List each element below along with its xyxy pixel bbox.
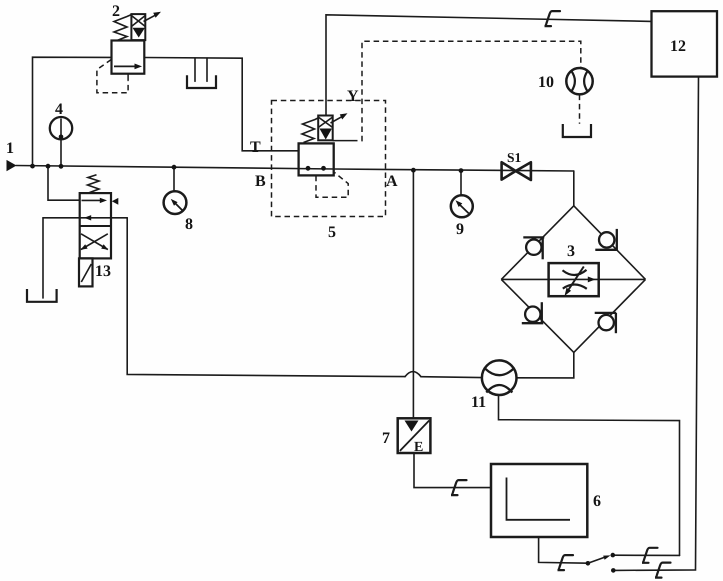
wire tank drop left: [42, 218, 44, 298]
flow control valve 3 center box: [549, 263, 599, 296]
wire bridge edge lower right: [574, 279, 646, 352]
check valve lower left: [522, 302, 544, 324]
gauge 9: [451, 195, 473, 217]
relief valve 2: [112, 12, 162, 81]
wire flow meter 10 to tank dashed: [579, 95, 581, 124]
svg-text:B: B: [255, 173, 266, 190]
wire command line valve 5 pilot to box 12: [326, 15, 652, 116]
check valve upper left: [523, 237, 544, 259]
wire bridge edge upper left: [501, 206, 574, 280]
wire bridge edge upper right: [574, 206, 646, 280]
wire upper contact line: [613, 554, 680, 556]
valve 13 proportional valve: [79, 175, 118, 287]
svg-text:11: 11: [471, 394, 486, 411]
svg-text:1: 1: [6, 140, 14, 157]
wire bridge horizontal: [501, 278, 645, 280]
wire valve 13 outlet down: [127, 218, 405, 377]
wire main pressure line P: [16, 166, 574, 172]
valve S1: [502, 162, 531, 180]
junction gauge-4 branch: [50, 117, 72, 139]
svg-text:5: 5: [328, 224, 336, 241]
junction gauge-9 branch: [459, 168, 464, 173]
wire pilot drain Y dashed: [352, 41, 581, 140]
wire scope 6 to switch: [539, 537, 588, 563]
svg-text:8: 8: [185, 216, 193, 233]
wire node A down to transducer 7: [412, 170, 414, 418]
svg-text:2: 2: [112, 3, 120, 20]
switch blade: [588, 557, 606, 564]
pump 1: [7, 160, 17, 171]
break symbol on command line: [545, 11, 561, 26]
wire valve 5 drain dashed: [316, 173, 348, 198]
junction inside valve 5 (right): [321, 166, 326, 171]
switch pivot contact: [586, 561, 591, 566]
bridge rectifier 3: [501, 206, 645, 353]
junction relief-valve branch: [30, 164, 35, 169]
break symbol 6 to switch: [558, 555, 574, 570]
wire crossing hump: [405, 372, 421, 377]
wire lower contact line to riser from 12: [613, 77, 698, 571]
tank bottom left: [27, 289, 57, 302]
wire gauge 4 stem: [60, 139, 62, 166]
break symbol lower contact: [655, 563, 671, 578]
junction node dots: [30, 164, 463, 173]
svg-text:9: 9: [456, 221, 464, 238]
wire hump to flow meter 11: [421, 376, 482, 379]
wire transducer 7 to scope 6: [414, 453, 491, 488]
valve 5 proportional relief (inside dashed box): [299, 113, 352, 175]
controller box 12: [652, 11, 718, 76]
wire relief valve 2 pilot dashed: [97, 60, 128, 93]
break symbol upper contact: [642, 548, 658, 563]
oscilloscope 6: [491, 464, 587, 537]
check valve upper right: [595, 229, 617, 251]
svg-text:6: 6: [593, 493, 601, 510]
svg-text:Y: Y: [347, 88, 359, 105]
junction gauge-8 branch: [172, 165, 177, 170]
svg-text:7: 7: [382, 430, 390, 447]
wire tank stub a: [194, 58, 196, 81]
wire relief valve 2 outlet to tank and T line: [144, 58, 298, 151]
junction valve-13 branch: [46, 164, 51, 169]
wire valve 13 tank line: [43, 217, 127, 219]
svg-text:3: 3: [567, 243, 575, 260]
switch upper contact: [611, 553, 616, 558]
transducer 7: [398, 418, 431, 453]
flow meter 10: [566, 68, 592, 94]
wire tank stub b: [206, 58, 208, 81]
tank under flow meter 10: [563, 124, 591, 137]
node box 5 dashed enclosure: [272, 101, 386, 217]
switch: [586, 553, 616, 573]
svg-text:S1: S1: [507, 150, 522, 165]
node A junction to transducer 7: [411, 168, 416, 173]
svg-text:12: 12: [670, 38, 686, 55]
wire S1 to bridge top: [573, 171, 575, 206]
wire flow meter 11 to right riser: [499, 395, 680, 556]
tank under valve 2: [187, 75, 216, 88]
wire gauge 9 stub: [460, 171, 462, 196]
svg-text:E: E: [414, 440, 423, 455]
svg-text:13: 13: [95, 263, 111, 280]
flow meter 11: [482, 360, 517, 395]
break symbol 7 to 6: [451, 480, 467, 495]
wire branch to valve 13 inlet: [48, 166, 80, 200]
gauge 4 (thermometer): [50, 117, 72, 139]
svg-text:A: A: [386, 173, 398, 190]
svg-text:T: T: [250, 139, 261, 156]
wire bridge bottom to flow meter 11: [516, 352, 573, 378]
svg-text:10: 10: [538, 74, 554, 91]
switch lower contact: [611, 568, 616, 573]
svg-text:4: 4: [55, 101, 63, 118]
wire gauge 8 stub: [173, 167, 175, 191]
check valve lower right: [595, 313, 617, 333]
junction inside valve 5 (left): [306, 166, 311, 171]
wire bridge edge lower left: [501, 279, 574, 352]
gauge 8: [164, 191, 187, 214]
wire branch to relief valve 2: [33, 57, 112, 166]
